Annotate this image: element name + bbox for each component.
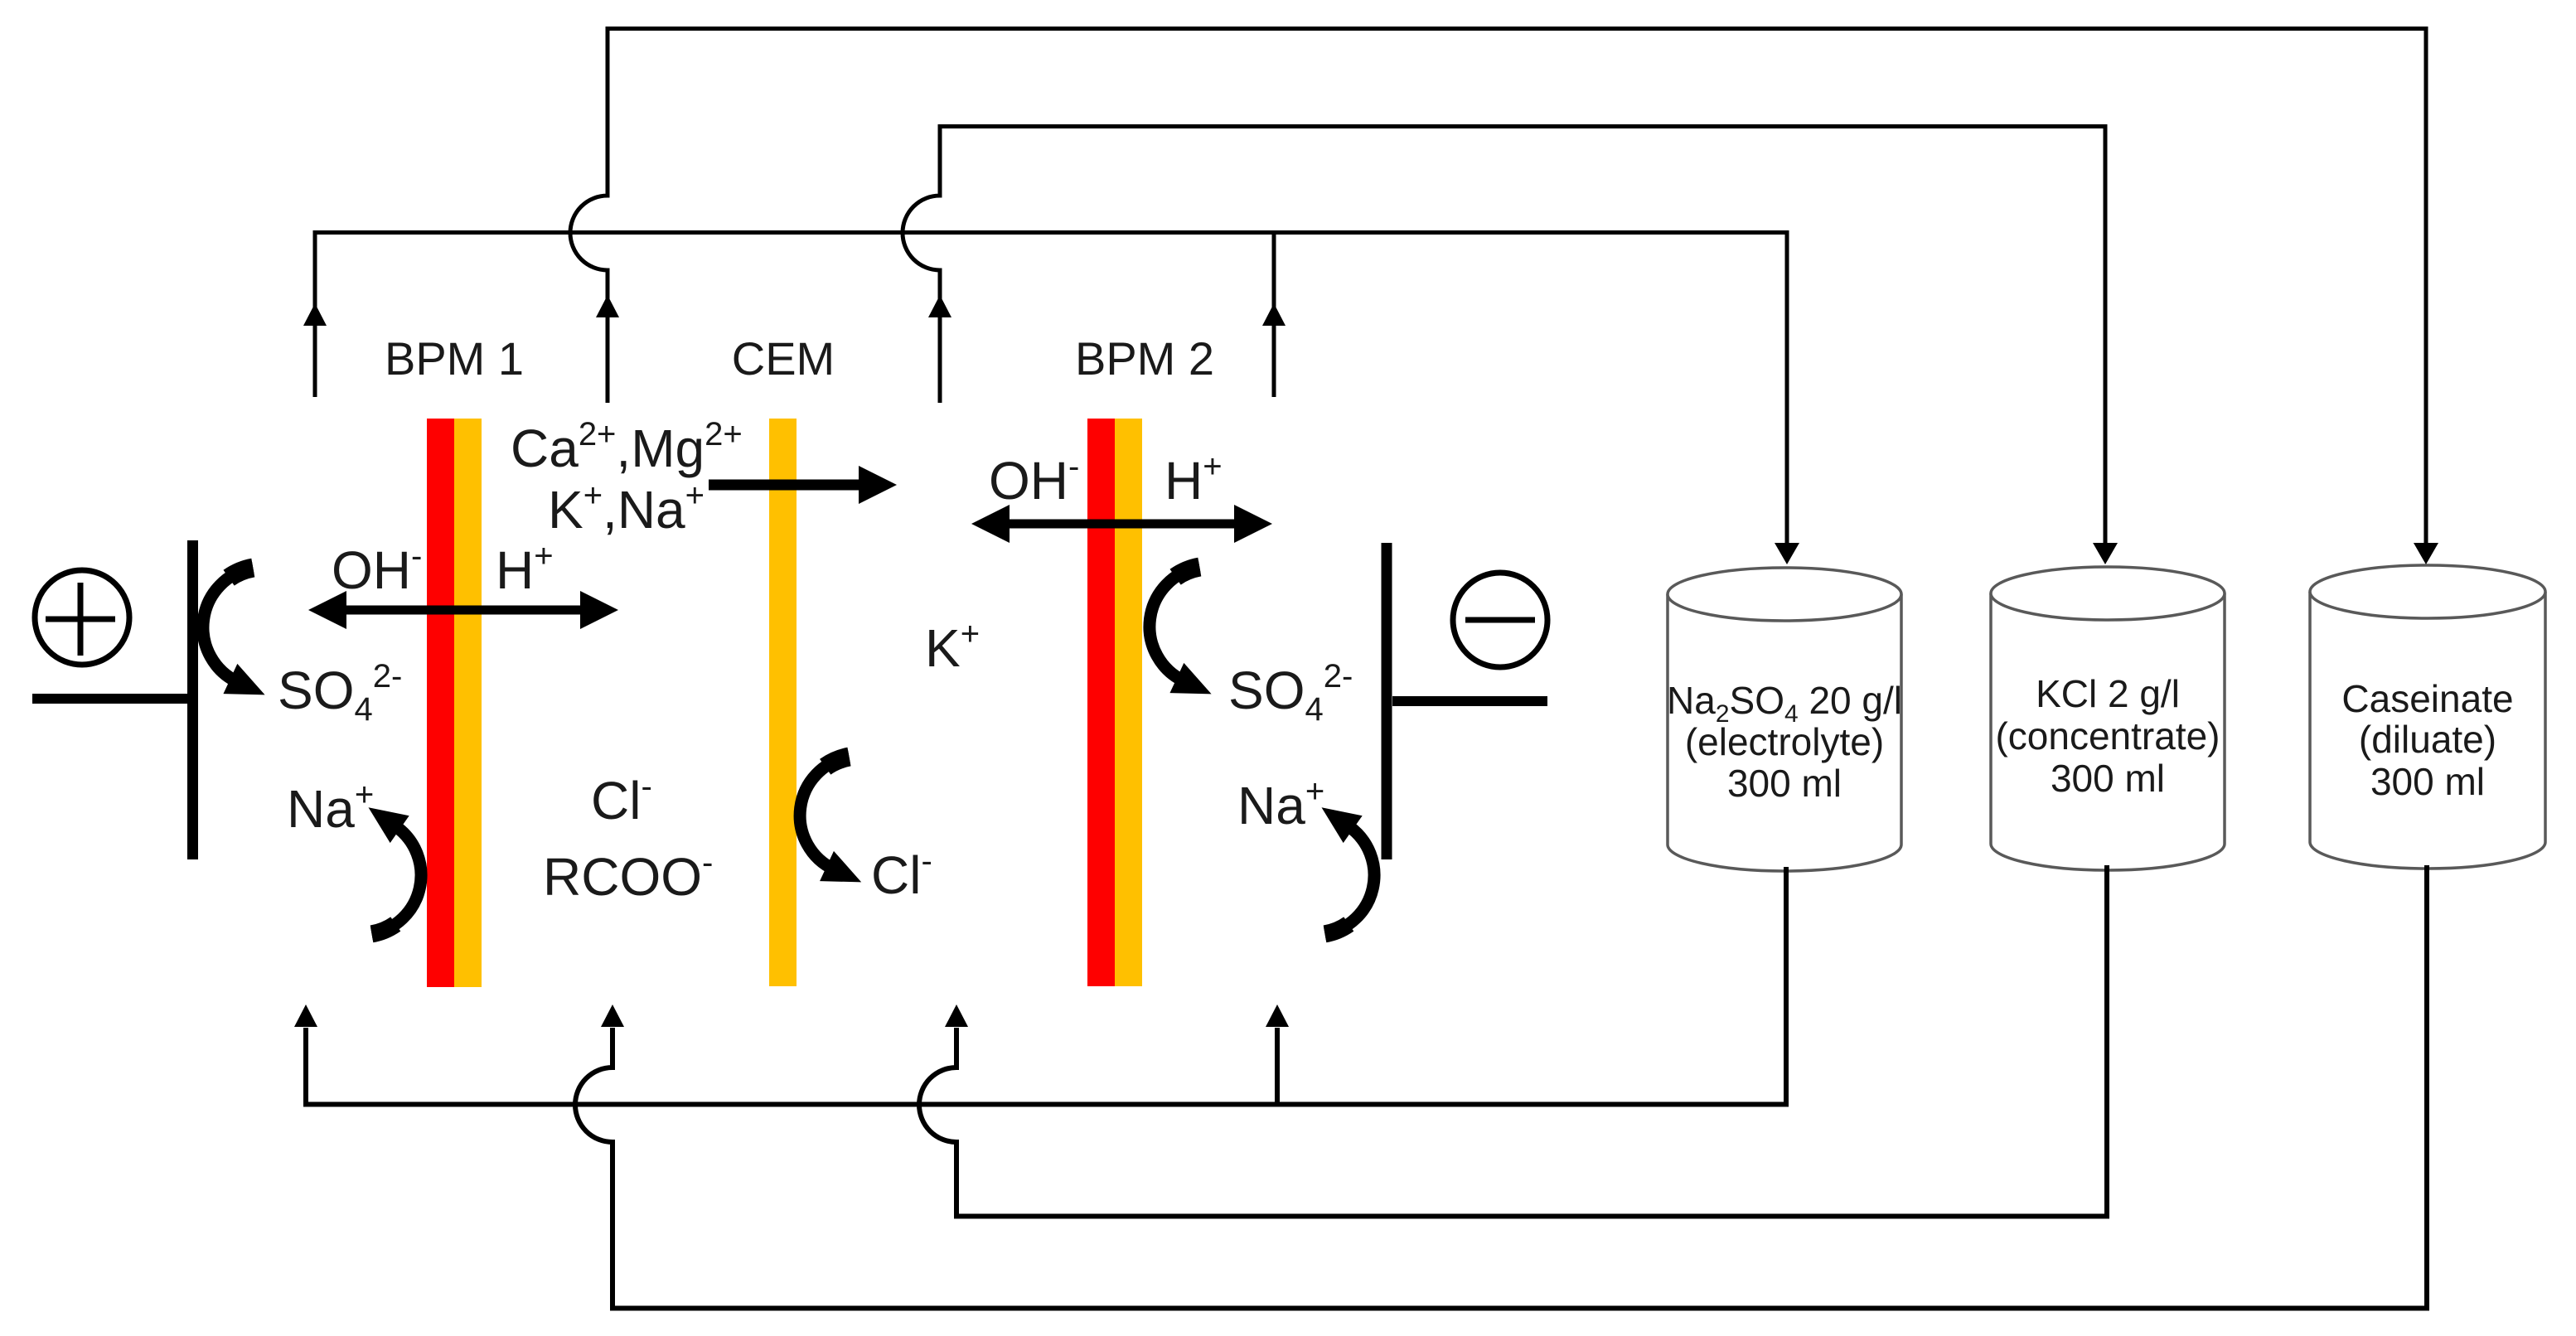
- arrowhead down into tank T2: [2093, 543, 2118, 564]
- arrowhead up right-electrode inlet: [1266, 1004, 1289, 1027]
- electrode anode bar: [187, 540, 198, 859]
- svg-text:K+,Na+: K+,Na+: [548, 477, 705, 540]
- wire top line B: concentrate outlet to tank T2: [903, 127, 2105, 546]
- wire V5 right-electrode outlet riser: [1272, 232, 1276, 397]
- ion arrow OH-/H+ across BPM1: [308, 591, 618, 629]
- wire bottom line L1: tank T1 to electrode inlets: [306, 867, 1786, 1105]
- membrane CEM orange layer: [769, 419, 797, 986]
- ion arrow OH-/H+ across BPM2: [971, 505, 1272, 543]
- membrane BPM1 red layer: [427, 419, 454, 987]
- wire anode lead: [32, 694, 187, 704]
- arrowhead up V2: [596, 295, 619, 317]
- svg-text:300 ml: 300 ml: [1727, 762, 1842, 805]
- curved arrow A4 BPM2 to SO4: [1150, 567, 1218, 709]
- wire top line C: electrode outlets to tank T1: [315, 233, 1787, 546]
- minus terminal symbol: [1453, 573, 1547, 667]
- arrowhead down into tank T3: [2414, 543, 2438, 564]
- plus terminal symbol: [35, 570, 129, 665]
- curved arrow A1 anode to SO4: [203, 568, 272, 709]
- wire bottom line L2: tank T2 to concentrate inlet: [919, 865, 2107, 1217]
- svg-text:300 ml: 300 ml: [2051, 757, 2165, 800]
- arrowhead up diluate inlet: [601, 1004, 624, 1027]
- svg-text:(concentrate): (concentrate): [1995, 714, 2220, 758]
- arrowhead up V4: [928, 295, 951, 317]
- curved arrow A2 Na+ to anode compartment: [359, 794, 421, 934]
- svg-text:(electrolyte): (electrolyte): [1685, 720, 1884, 763]
- svg-text:BPM 2: BPM 2: [1075, 332, 1214, 385]
- wire cathode lead: [1392, 696, 1547, 706]
- svg-text:(diluate): (diluate): [2359, 718, 2496, 761]
- svg-text:BPM 1: BPM 1: [385, 332, 524, 385]
- tank T1 electrolyte cylinder: [1668, 568, 1901, 871]
- curved arrow A3 CEM to Cl-: [800, 757, 869, 897]
- ion arrow cations across CEM: [709, 466, 897, 504]
- arrowhead up concentrate inlet: [945, 1004, 968, 1027]
- svg-text:300 ml: 300 ml: [2370, 760, 2485, 803]
- svg-text:OH-: OH-: [989, 448, 1079, 511]
- curved arrow A5 Na+ to cathode compartment: [1312, 794, 1374, 934]
- svg-text:KCl 2 g/l: KCl 2 g/l: [2036, 672, 2180, 715]
- membrane BPM2 red layer: [1087, 419, 1115, 986]
- svg-text:RCOO-: RCOO-: [543, 845, 713, 907]
- wire V8 right-electrode inlet riser: [1275, 1028, 1280, 1104]
- wire top line A: diluate outlet to tank T3: [570, 29, 2426, 546]
- electrode cathode bar: [1382, 543, 1392, 859]
- svg-text:OH-: OH-: [332, 538, 422, 600]
- wire bottom line L3: tank T3 to diluate inlet: [575, 865, 2427, 1309]
- arrowhead up bottom-left inlet: [294, 1004, 317, 1027]
- arrowhead up V5: [1262, 303, 1286, 326]
- membrane BPM1 orange layer: [454, 419, 482, 987]
- arrowhead up V1: [303, 303, 327, 326]
- svg-text:Caseinate: Caseinate: [2341, 677, 2513, 720]
- tank T3 diluate cylinder: [2310, 565, 2545, 869]
- tank T2 concentrate cylinder: [1991, 567, 2225, 870]
- svg-text:CEM: CEM: [732, 332, 835, 385]
- arrowhead down into tank T1: [1775, 543, 1799, 564]
- membrane BPM2 orange layer: [1115, 419, 1142, 986]
